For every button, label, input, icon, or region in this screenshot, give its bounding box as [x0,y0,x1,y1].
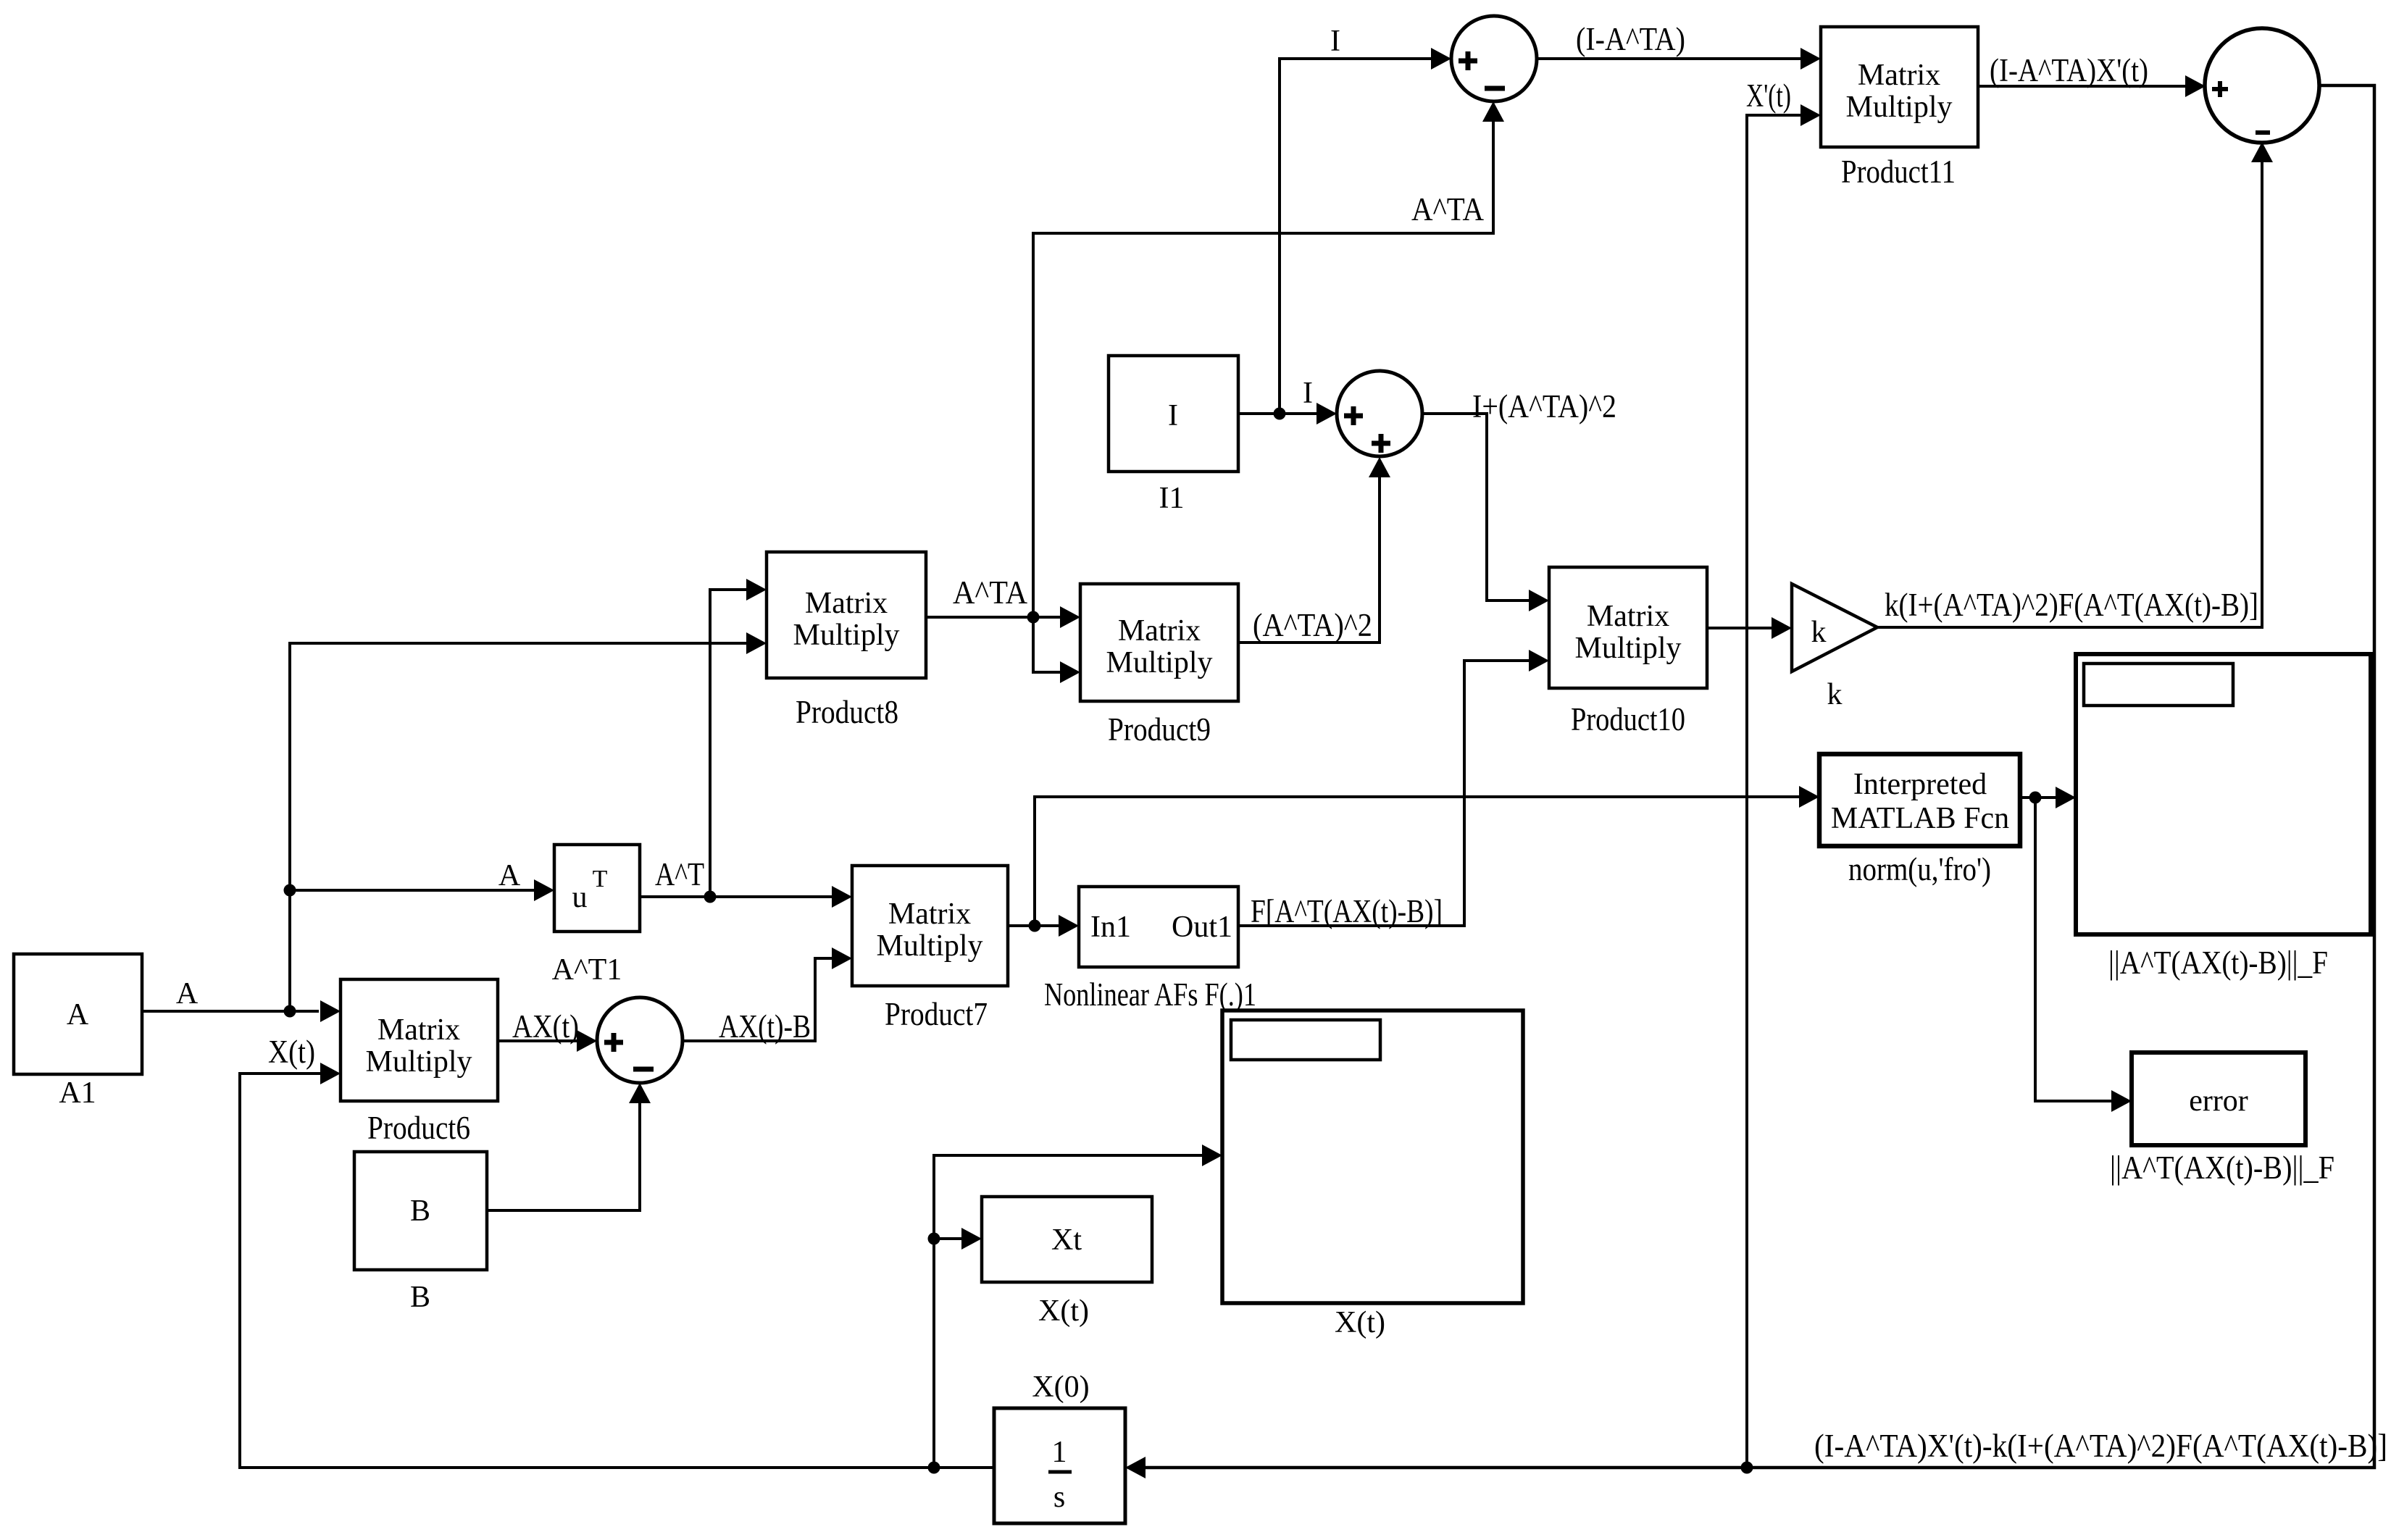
svg-text:k: k [1827,678,1843,711]
svg-text:A^TA: A^TA [953,574,1027,611]
svg-text:Matrix: Matrix [1118,614,1201,648]
wire net X(t) to scope and Xt workspace [928,1144,1223,1468]
svg-text:Matrix: Matrix [1587,600,1669,633]
wire net X'(t) derivative feedback: sum S3 output right, down and left into integrator 1/s [1125,85,2374,1478]
svg-text:(I-A^TA)X'(t): (I-A^TA)X'(t) [1990,52,2148,88]
wire net AX(t): Product6 output into sum S4 plus input [498,1030,597,1052]
subsystem block Nonlinear AFs F(.)1 (In1/Out1) [1044,887,1256,1013]
to-workspace block Xt [982,1197,1152,1328]
svg-text:(I-A^TA)X'(t)-k(I+(A^TA)^2)F(A: (I-A^TA)X'(t)-k(I+(A^TA)^2)F(A^T(AX(t)-B… [1814,1428,2387,1464]
svg-text:AX(t): AX(t) [512,1008,579,1045]
svg-text:Matrix: Matrix [377,1013,460,1047]
svg-text:norm(u,'fro'): norm(u,'fro') [1848,851,1991,887]
wire net A^T: u^T output to Product7 in1, riser to Product8 in1 [640,579,852,908]
wire net I: I1 output to sum S2 plus input and up to sum S1 plus input [1238,48,1451,424]
wire net Product10 output into gain k [1707,617,1792,639]
sum junction S4 (AX(t) - B) [597,997,683,1083]
wire net (I-A^TA): sum S1 output to Product11 in1 [1537,48,1821,70]
function block Interpreted MATLAB Fcn [1819,754,2020,887]
wire net AX(t)-B: sum S4 output to Product7 in2 [683,947,852,1041]
svg-text:A: A [67,998,89,1031]
scope block X(t) [1222,1010,1523,1339]
scope block ||A^T(AX(t)-B)||_F [2076,654,2371,981]
product block Product7 (Matrix Multiply) [852,866,1008,1032]
sum junction S1 (I - A^TA) [1451,16,1537,101]
svg-text:I: I [1168,399,1178,432]
product block Product11 (Matrix Multiply) [1821,27,1978,190]
svg-text:Product11: Product11 [1841,154,1956,190]
svg-text:I: I [1330,25,1340,58]
svg-text:Product9: Product9 [1108,711,1211,748]
svg-text:Xt: Xt [1051,1223,1082,1257]
svg-text:X(t): X(t) [1038,1294,1089,1328]
svg-text:X(t): X(t) [1335,1306,1385,1339]
sum junction S2 (I + (A^TA)^2) [1337,371,1422,456]
svg-text:A: A [498,859,521,892]
gain block k (triangle) [1792,584,1877,711]
svg-text:A: A [176,977,199,1010]
wire net X'(t): riser from feedback line up to Product11 in2 [1747,104,1821,1468]
svg-text:Interpreted: Interpreted [1853,768,1987,801]
svg-text:AX(t)-B: AX(t)-B [719,1008,811,1045]
svg-text:k(I+(A^TA)^2)F(A^T(AX(t)-B)]: k(I+(A^TA)^2)F(A^T(AX(t)-B)] [1885,587,2258,623]
svg-text:F[A^T(AX(t)-B)]: F[A^T(AX(t)-B)] [1251,893,1443,929]
svg-text:X(t): X(t) [268,1034,315,1070]
transpose block A^T1 (u^T) [552,845,640,987]
svg-text:A^TA: A^TA [1411,191,1484,227]
wire net X(t): integrator output left and up to Product6 in2 [240,1063,994,1474]
svg-text:||A^T(AX(t)-B)||_F: ||A^T(AX(t)-B)||_F [2108,945,2328,981]
svg-text:Multiply: Multiply [793,619,899,652]
svg-text:Nonlinear AFs F(.)1: Nonlinear AFs F(.)1 [1044,976,1256,1013]
product block Product9 (Matrix Multiply) [1080,584,1238,748]
svg-text:Multiply: Multiply [1106,646,1212,679]
svg-text:Multiply: Multiply [1845,91,1952,124]
svg-text:Multiply: Multiply [365,1045,472,1079]
wire net (I-A^TA)X'(t): Product11 output into sum S3 plus input [1978,75,2206,97]
svg-text:B: B [410,1281,430,1314]
svg-text:A^T: A^T [655,856,704,892]
sum junction S3 (final subtraction) [2205,28,2319,143]
svg-text:X(0): X(0) [1032,1370,1089,1404]
svg-text:Multiply: Multiply [876,929,982,963]
svg-text:Matrix: Matrix [1858,59,1940,92]
svg-text:Product10: Product10 [1571,701,1685,737]
svg-text:(A^TA)^2: (A^TA)^2 [1253,607,1372,643]
product block Product10 (Matrix Multiply) [1549,567,1707,737]
svg-text:In1: In1 [1090,911,1131,944]
svg-text:A1: A1 [59,1076,96,1110]
wire net A^T(AX(t)-B): Product7 output to Nonlinear AFs In1 and riser to Interpreted MATLAB Fcn [1008,786,1819,937]
product block Product6 (Matrix Multiply) [341,979,498,1146]
svg-text:Product6: Product6 [367,1110,470,1146]
wire net F[A^T(AX(t)-B)]: Out1 output up to Product10 in2 [1238,650,1549,926]
wire net norm output: Interpreted MATLAB Fcn to scope and down to error display [2020,787,2132,1112]
wire net A: A1 output to Product6 in1, riser to u^T and Product8 in2 [142,632,767,1022]
wire net k(I+(A^TA)^2)F(A^T(AX(t)-B)]: gain output up into sum S3 minus input [1877,142,2273,627]
svg-text:Product7: Product7 [885,996,988,1032]
wire net A^TA: Product8 output to Product9 in1/in2 and up to sum S1 minus input [926,101,1504,683]
svg-text:(I-A^TA): (I-A^TA) [1576,21,1685,57]
source block A1 (constant A) [14,954,142,1110]
display block error [2110,1053,2334,1186]
svg-text:B: B [410,1194,430,1228]
svg-text:||A^T(AX(t)-B)||_F: ||A^T(AX(t)-B)||_F [2110,1150,2334,1186]
svg-text:Matrix: Matrix [888,897,971,931]
svg-text:Matrix: Matrix [805,587,888,620]
svg-text:T: T [593,866,608,892]
wire net I+(A^TA)^2: sum S2 output to Product10 in1 [1422,414,1549,611]
svg-text:I: I [1303,377,1313,410]
svg-text:X'(t): X'(t) [1746,78,1791,114]
svg-text:1: 1 [1052,1436,1067,1469]
svg-text:s: s [1053,1481,1065,1514]
wire net B: B block output up into sum S4 minus input [487,1083,651,1210]
svg-text:k: k [1811,616,1827,649]
source block B (constant B) [354,1152,487,1314]
integrator block 1/s with initial condition X(0) [994,1370,1125,1523]
wire net (A^TA)^2: Product9 output up into sum S2 lower plus input [1238,457,1390,643]
svg-text:u: u [572,881,588,914]
svg-text:error: error [2189,1084,2248,1118]
product block Product8 (Matrix Multiply) [767,552,926,730]
svg-text:A^T1: A^T1 [552,953,622,987]
source block I1 (identity matrix I) [1109,356,1238,515]
svg-text:Out1: Out1 [1172,911,1232,944]
svg-text:I1: I1 [1159,482,1185,515]
svg-text:MATLAB Fcn: MATLAB Fcn [1831,802,2009,835]
svg-text:Multiply: Multiply [1574,632,1681,665]
svg-text:I+(A^TA)^2: I+(A^TA)^2 [1472,388,1616,424]
svg-text:Product8: Product8 [796,694,898,730]
